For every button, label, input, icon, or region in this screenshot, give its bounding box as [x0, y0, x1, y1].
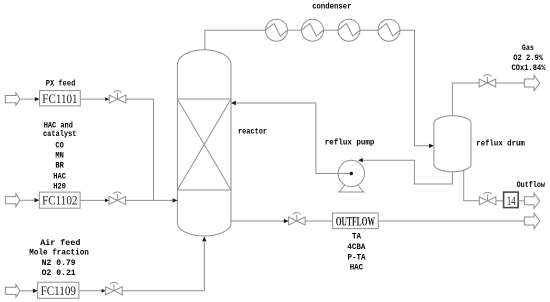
controller FC1109: [38, 282, 79, 298]
wire E3-E4: [360, 29, 378, 31]
reactor vessel: [177, 50, 231, 236]
svg-text:P-TA: P-TA: [348, 252, 367, 262]
svg-text:reflux pump: reflux pump: [325, 138, 375, 148]
wire box 14 to outlet: [518, 200, 524, 202]
wire HAC arrow to FC1102: [20, 199, 36, 201]
condenser exchanger E1: [266, 19, 288, 41]
wire FC1101 to valve V1: [80, 98, 106, 100]
svg-text:BR: BR: [55, 161, 64, 171]
valve V6: [289, 213, 306, 225]
wire PX arrow to FC1101: [20, 98, 37, 100]
Gas outlet block arrow: [524, 75, 539, 90]
arrow into FC1102: [35, 198, 40, 202]
wire condenser to reflux drum: [400, 30, 431, 146]
svg-text:catalyst: catalyst: [43, 129, 77, 139]
controller FC1102: [39, 192, 80, 208]
arrow into valve V1: [105, 97, 109, 101]
arrow into valve V3: [102, 289, 106, 293]
arrow into reflux drum: [429, 144, 434, 148]
svg-text:COx1.84%: COx1.84%: [512, 63, 547, 73]
svg-text:reactor: reactor: [238, 127, 267, 137]
valve V4 gas: [479, 75, 496, 87]
svg-text:H20: H20: [53, 182, 66, 192]
wire drum bottom to outflow valve: [464, 170, 480, 201]
reactor internal bed X diagonal 2: [177, 99, 231, 190]
svg-text:HAC: HAC: [350, 262, 364, 272]
svg-text:Outflow: Outflow: [517, 180, 546, 190]
reflux drum vessel: [434, 116, 471, 172]
arrow into reactor left wall: [173, 198, 178, 202]
svg-text:PX feed: PX feed: [46, 79, 76, 89]
wire reactor bottom outflow: [231, 220, 287, 222]
PX feed block arrow: [5, 93, 20, 106]
svg-text:O2 2.9%: O2 2.9%: [513, 53, 543, 63]
wire reactor top to condenser: [205, 30, 266, 50]
valve V1: [109, 91, 126, 103]
HAC feed block arrow: [5, 194, 20, 207]
condenser exchanger E2: [302, 19, 324, 41]
svg-text:HAC: HAC: [53, 171, 66, 181]
wire FC1109 to valve V3: [79, 290, 103, 292]
wire valve V6 to OUTFLOW box: [305, 220, 333, 222]
svg-text:MN: MN: [55, 151, 63, 161]
svg-text:O2 0.21: O2 0.21: [42, 268, 76, 278]
svg-text:N2 0.79: N2 0.79: [42, 258, 76, 268]
Air feed labels: [29, 238, 89, 278]
outflow component labels: [347, 232, 366, 273]
svg-text:FC1102: FC1102: [42, 193, 77, 208]
svg-text:FC1101: FC1101: [42, 91, 77, 106]
arrow into reactor right wall: [231, 101, 236, 105]
Gas labels: [512, 43, 547, 73]
Air feed block arrow: [5, 285, 20, 298]
arrow into pump: [358, 158, 363, 162]
svg-text:4CBA: 4CBA: [347, 242, 366, 252]
wire E2-E3: [324, 29, 339, 31]
wire reflux return into reactor: [234, 103, 351, 174]
node pump discharge: [350, 172, 353, 175]
wire drum top to gas valve: [452, 83, 479, 116]
svg-text:Gas: Gas: [522, 43, 534, 53]
Outflow outlet block arrow (drum): [524, 193, 539, 208]
arrow into FC1101: [35, 97, 40, 101]
Outflow bottom block arrow: [524, 213, 539, 228]
wire Air arrow to FC1109: [20, 290, 35, 292]
wire OUTFLOW box to outlet: [378, 220, 524, 222]
svg-text:TA: TA: [352, 232, 362, 242]
HAC and catalyst labels: [43, 120, 77, 191]
valve V3: [106, 282, 123, 294]
wire gas valve to outlet: [496, 82, 525, 84]
valve V5 outflow: [479, 192, 496, 204]
svg-text:reflux drum: reflux drum: [476, 139, 525, 149]
controller FC1101: [40, 91, 81, 106]
svg-text:CO: CO: [55, 140, 63, 150]
condenser exchanger E3: [338, 19, 360, 41]
wire valve V1 right and down to HAC line: [126, 99, 154, 200]
pump P1: [338, 160, 365, 192]
wire E1-E2: [288, 29, 302, 31]
arrow into valve V2: [105, 199, 109, 203]
svg-text:Mole fraction: Mole fraction: [29, 248, 89, 258]
wire drum to pump suction: [362, 160, 453, 184]
svg-text:OUTFLOW: OUTFLOW: [336, 213, 375, 228]
svg-text:FC1109: FC1109: [41, 283, 76, 298]
reactor internal bed top line: [177, 98, 231, 100]
wire into pump center: [338, 173, 351, 175]
reactor internal bed X diagonal 1: [177, 99, 231, 190]
svg-text:14: 14: [507, 193, 516, 208]
wire valve V5 to box 14: [496, 200, 504, 202]
wire valve V3 to reactor bottom: [122, 240, 204, 291]
stream box 14: [504, 192, 519, 208]
svg-text:Air feed: Air feed: [40, 238, 80, 248]
condenser exchanger E4: [378, 19, 400, 41]
arrow into FC1109: [33, 289, 38, 293]
svg-text:condenser: condenser: [312, 2, 351, 12]
wire valve V2 to reactor: [126, 199, 178, 201]
arrow into valve V6: [284, 219, 289, 223]
reactor internal bed bottom line: [177, 189, 231, 191]
wire FC1102 to valve V2: [80, 199, 106, 201]
arrow into reactor bottom: [202, 237, 206, 242]
valve V2: [109, 192, 126, 204]
stream box OUTFLOW: [333, 213, 379, 229]
